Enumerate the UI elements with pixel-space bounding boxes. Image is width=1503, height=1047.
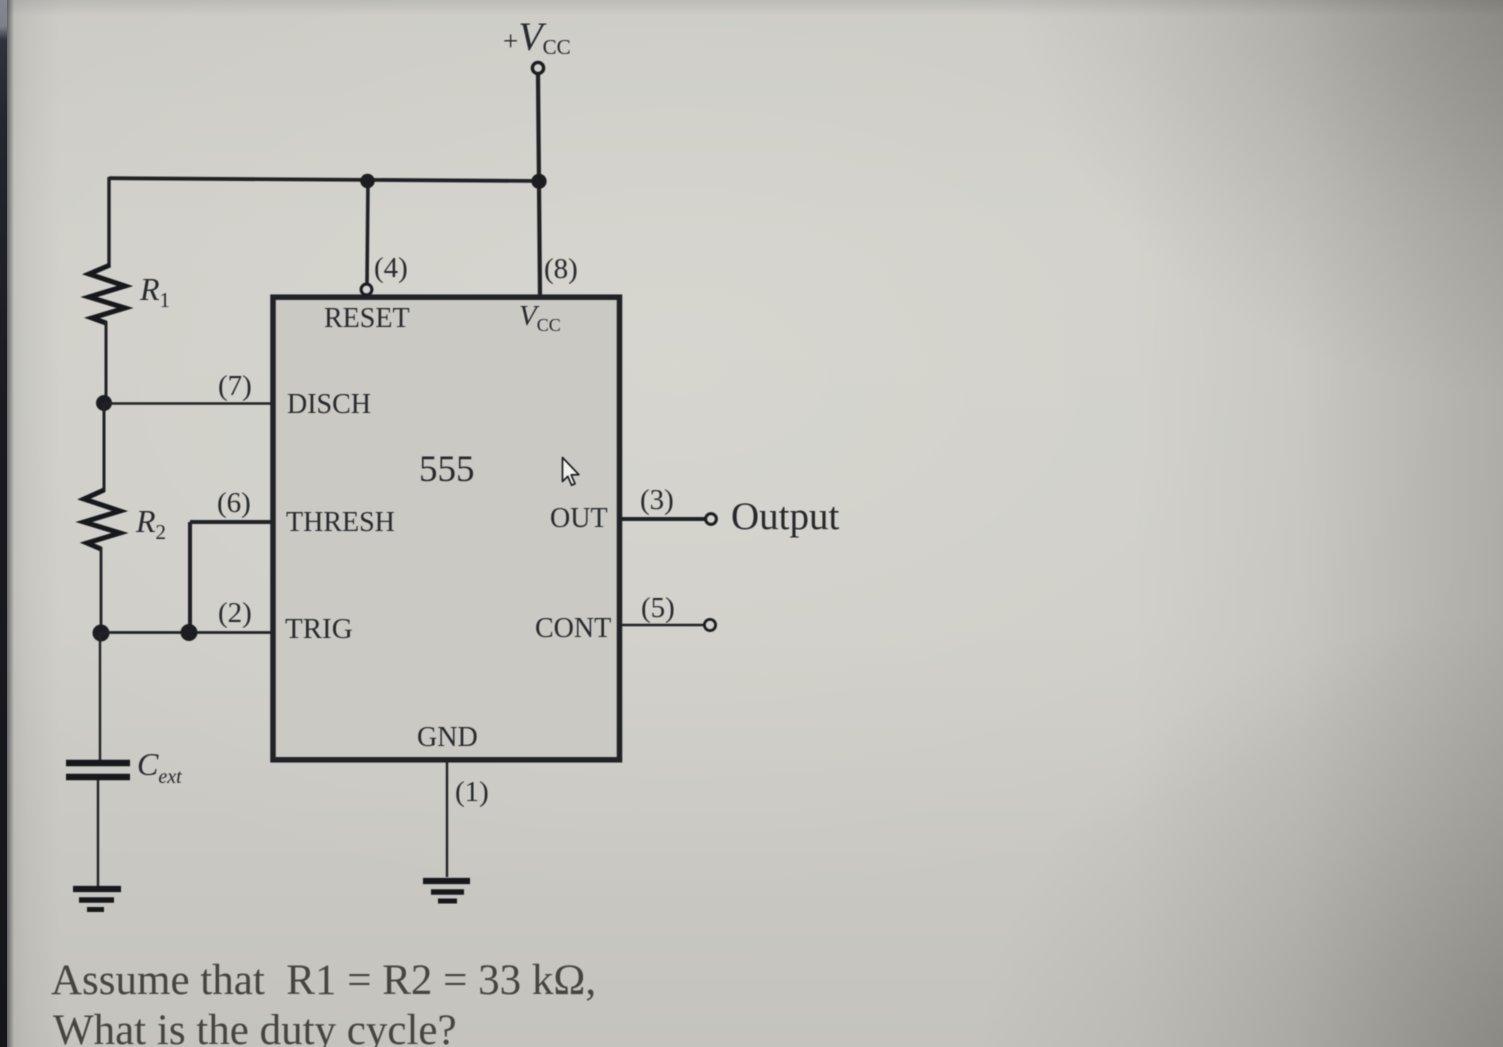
label R2 xyxy=(136,503,166,545)
node: junction dot at DISCH tap xyxy=(96,395,112,411)
wire: left rail between TRIG node and Cext xyxy=(99,633,101,761)
ground symbol below Cext xyxy=(73,889,121,910)
wire: left rail upper segment (top rail to R1) xyxy=(107,177,110,267)
wire: pin 2 TRIG xyxy=(101,631,273,634)
pin number (3) xyxy=(640,484,674,517)
wire: pin 1 GND drop xyxy=(446,760,448,877)
caption line 2 xyxy=(53,1006,457,1047)
node: junction dot on left rail at TRIG tap xyxy=(93,625,110,642)
wire: left rail between DISCH node and R2 xyxy=(103,403,106,492)
pin label Vcc xyxy=(519,300,561,336)
pin number (5) xyxy=(641,592,675,625)
wire: top rail from R1 top to Vcc branch xyxy=(109,178,539,181)
label R1 xyxy=(140,271,170,313)
pin label RESET xyxy=(324,303,410,335)
pin label TRIG xyxy=(285,613,353,646)
wire: left rail between R1 and DISCH node xyxy=(105,321,108,404)
capacitor Cext xyxy=(66,763,130,777)
terminal circle at OUT xyxy=(706,514,717,525)
pin number (4) xyxy=(374,252,408,285)
pin number (6) xyxy=(217,487,251,520)
label Output xyxy=(731,494,839,539)
wire: pin 5 CONT xyxy=(620,624,704,626)
node: junction dot where Vcc wire crosses top rail xyxy=(531,174,546,189)
wire: pin 6 THRESH horizontal xyxy=(190,520,273,524)
mouse cursor arrow xyxy=(563,458,579,486)
resistor R1 zigzag xyxy=(89,265,125,323)
pin label OUT xyxy=(550,503,608,535)
caption line 1 xyxy=(51,956,596,1005)
wire: left rail between R2 and TRIG node xyxy=(100,547,103,633)
node: junction dot at THRESH/TRIG link xyxy=(181,624,198,641)
pin number (1) xyxy=(455,776,489,809)
ground symbol at pin 1 xyxy=(423,881,470,901)
terminal circle at pin 4 (RESET) xyxy=(361,284,372,295)
wire: +Vcc terminal down to pin 8 xyxy=(538,74,540,296)
node: junction dot at pin-4 tap on top rail xyxy=(360,174,374,188)
pin number (8) xyxy=(544,253,578,286)
pin label DISCH xyxy=(287,389,371,421)
wire: pin 4 reset drop from top rail xyxy=(367,180,368,284)
pin number (7) xyxy=(218,370,252,403)
label +Vcc supply xyxy=(503,13,571,60)
IC body U1 555 timer xyxy=(273,297,620,760)
pin label THRESH xyxy=(286,507,395,539)
pin label GND xyxy=(417,722,478,754)
terminal circle +Vcc xyxy=(532,62,543,73)
pin number (2) xyxy=(218,597,252,630)
wire: pin 3 OUT xyxy=(620,517,705,521)
wire: pin 7 DISCH xyxy=(104,402,273,405)
wire: THRESH to TRIG vertical link xyxy=(188,522,192,633)
wire: Cext bottom to ground xyxy=(97,780,99,886)
IC name 555 xyxy=(419,448,475,491)
pin label CONT xyxy=(535,613,611,645)
resistor R2 zigzag xyxy=(84,490,120,549)
terminal circle at CONT xyxy=(704,619,715,630)
label Cext xyxy=(137,746,182,789)
dark screen bezel strip at left edge xyxy=(0,0,7,1047)
